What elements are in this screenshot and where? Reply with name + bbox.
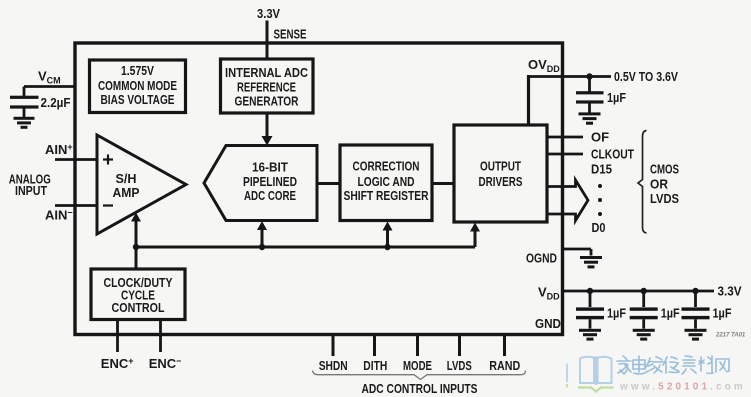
svg-text:2217 TA01: 2217 TA01 xyxy=(715,333,746,339)
svg-text:OGND: OGND xyxy=(526,250,557,265)
svg-text:1µF: 1µF xyxy=(607,305,626,320)
svg-text:MODE: MODE xyxy=(403,358,432,373)
svg-text:DITH: DITH xyxy=(363,358,387,373)
svg-text:LVDS: LVDS xyxy=(650,191,679,206)
svg-text:ADC CONTROL INPUTS: ADC CONTROL INPUTS xyxy=(362,381,478,396)
svg-text:GENERATOR: GENERATOR xyxy=(235,94,299,108)
svg-text:INPUT: INPUT xyxy=(15,183,47,198)
svg-text:ADC CORE: ADC CORE xyxy=(244,189,296,203)
svg-text:LOGIC AND: LOGIC AND xyxy=(358,175,415,189)
svg-text:CMOS: CMOS xyxy=(650,161,679,176)
svg-text:2.2µF: 2.2µF xyxy=(41,95,71,110)
svg-text:3.3V: 3.3V xyxy=(257,6,280,21)
svg-text:RAND: RAND xyxy=(489,358,520,373)
svg-text:SHIFT REGISTER: SHIFT REGISTER xyxy=(344,189,429,203)
svg-text:PIPELINED: PIPELINED xyxy=(243,175,297,189)
svg-text:GND: GND xyxy=(535,316,561,331)
svg-text:1µF: 1µF xyxy=(607,90,626,105)
svg-text:CORRECTION: CORRECTION xyxy=(353,159,420,173)
svg-text:OUTPUT: OUTPUT xyxy=(480,159,521,173)
svg-text:COMMON MODE: COMMON MODE xyxy=(98,79,177,93)
svg-text:OF: OF xyxy=(591,129,609,144)
svg-text:16-BIT: 16-BIT xyxy=(252,160,288,174)
svg-text:1.575V: 1.575V xyxy=(121,64,155,78)
svg-text:SHDN: SHDN xyxy=(319,358,348,373)
svg-text:LVDS: LVDS xyxy=(447,358,472,373)
svg-text:1µF: 1µF xyxy=(713,305,732,320)
svg-text:OR: OR xyxy=(650,176,669,191)
svg-text:REFERENCE: REFERENCE xyxy=(237,80,296,94)
svg-text:CONTROL: CONTROL xyxy=(112,301,165,315)
svg-text:www.520101.com: www.520101.com xyxy=(619,382,746,393)
svg-text:3.3V: 3.3V xyxy=(718,283,742,298)
svg-text:CLKOUT: CLKOUT xyxy=(591,146,634,161)
svg-text:1µF: 1µF xyxy=(661,305,680,320)
svg-text:D15: D15 xyxy=(591,161,612,176)
svg-text:0.5V TO 3.6V: 0.5V TO 3.6V xyxy=(614,69,678,84)
svg-text:SENSE: SENSE xyxy=(274,27,307,42)
svg-text:BIAS VOLTAGE: BIAS VOLTAGE xyxy=(101,93,175,107)
svg-text:AMP: AMP xyxy=(113,186,140,200)
svg-text:DRIVERS: DRIVERS xyxy=(479,175,523,189)
svg-text:D0: D0 xyxy=(592,220,606,235)
svg-text:INTERNAL ADC: INTERNAL ADC xyxy=(225,66,308,80)
svg-text:S/H: S/H xyxy=(116,172,137,186)
